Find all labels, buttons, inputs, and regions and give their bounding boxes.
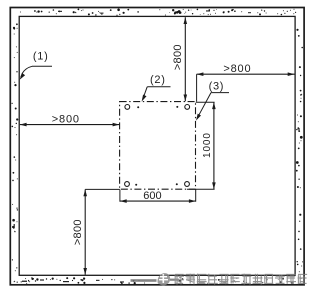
dim top-right >800 line: [197, 72, 295, 101]
mounting hole top-right: [185, 105, 190, 110]
wall inner outline: [19, 16, 295, 275]
svg-text:1000: 1000: [202, 132, 213, 158]
dim left >800 line: [20, 123, 120, 127]
watermark: [131, 273, 308, 285]
label (3): [196, 81, 229, 121]
mounting hole bottom-right: [185, 182, 190, 187]
hole center marks: [135, 106, 178, 186]
mounting hole bottom-left: [125, 182, 130, 187]
svg-text:(1): (1): [33, 51, 49, 63]
svg-text:600: 600: [143, 190, 161, 202]
mounting hole top-left: [125, 105, 130, 110]
svg-text:(2): (2): [150, 74, 166, 86]
label (2): [142, 74, 171, 101]
svg-text:>800: >800: [72, 219, 84, 245]
svg-text:(3): (3): [209, 81, 225, 93]
dim top vertical >800 line: [184, 17, 188, 101]
dim 1000 right: [187, 102, 216, 189]
dim bottom-left vertical >800: [83, 189, 120, 274]
dim 600 bottom: [120, 189, 196, 203]
svg-text:>800: >800: [223, 63, 251, 75]
svg-text:>800: >800: [172, 44, 184, 70]
label (1): [20, 51, 52, 80]
box (2) outline dash-dot: [120, 102, 196, 190]
svg-text:>800: >800: [52, 113, 80, 125]
